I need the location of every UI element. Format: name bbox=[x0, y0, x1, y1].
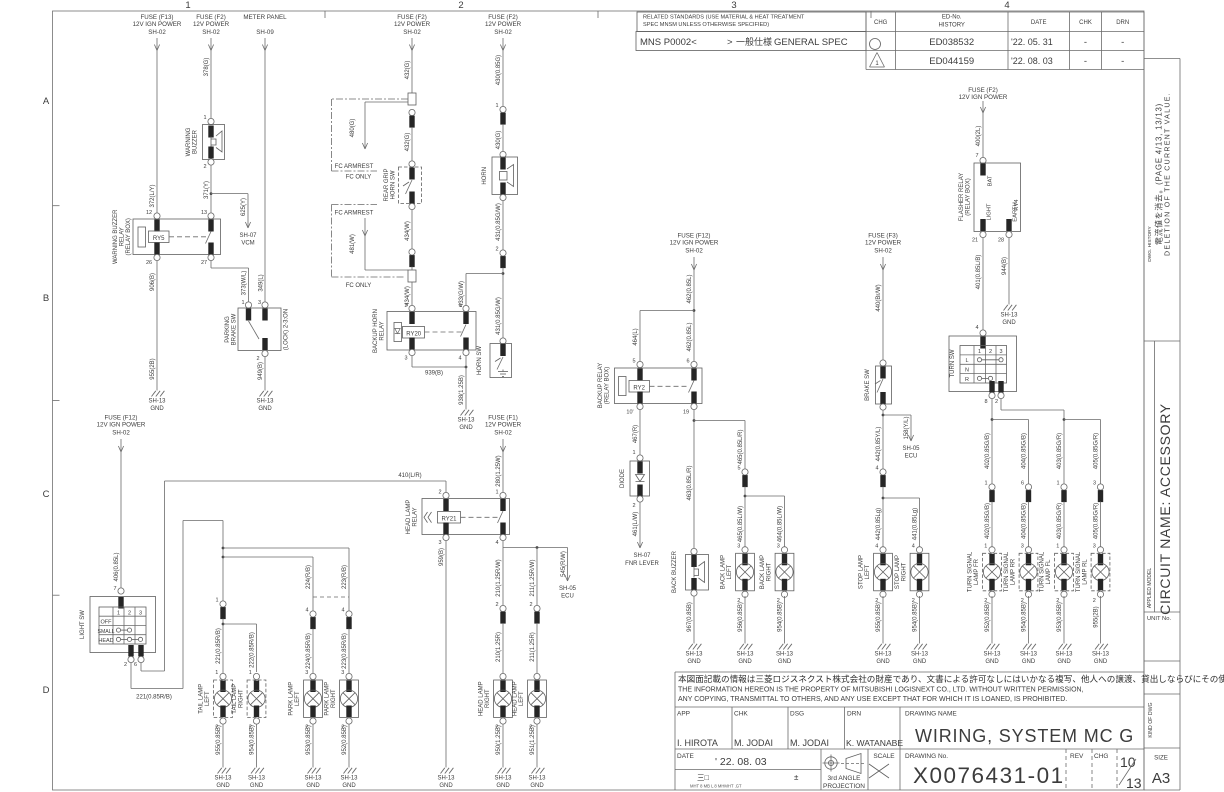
stop lamp left bbox=[880, 547, 886, 553]
wire 467(R) bbox=[633, 410, 640, 455]
wire 625(Y) to SH-07 VCM bbox=[211, 194, 257, 247]
relay RY5 warning buzzer relay bbox=[113, 209, 221, 266]
svg-text:403(0.85G/R): 403(0.85G/R) bbox=[1057, 503, 1063, 539]
svg-text:KIND OF DWG: KIND OF DWG bbox=[1148, 702, 1154, 737]
svg-text:211(1.25R): 211(1.25R) bbox=[530, 632, 536, 662]
svg-text:HORN SW: HORN SW bbox=[477, 346, 483, 375]
svg-text:28: 28 bbox=[998, 238, 1004, 244]
svg-text:FLASHER RELAY: FLASHER RELAY bbox=[959, 173, 965, 222]
svg-text:RIGHT: RIGHT bbox=[767, 562, 773, 581]
wire 371(Y) bbox=[204, 165, 211, 216]
svg-text:LEFT: LEFT bbox=[865, 564, 871, 579]
date cell bbox=[675, 753, 821, 770]
svg-text:4: 4 bbox=[1004, 0, 1009, 11]
svg-text:GND: GND bbox=[687, 659, 701, 665]
svg-text:REAR GRIP: REAR GRIP bbox=[384, 168, 390, 201]
ground SH-13 stop lamp left bbox=[878, 644, 882, 650]
connector on back lamp wire bbox=[737, 466, 748, 552]
svg-text:1: 1 bbox=[978, 349, 981, 355]
svg-text:HORN: HORN bbox=[482, 167, 488, 185]
svg-text:1: 1 bbox=[117, 610, 120, 616]
park lamp right bbox=[346, 673, 352, 679]
svg-text:442(0.85Lg): 442(0.85Lg) bbox=[876, 508, 882, 540]
wire 954(0.85B) to ground bbox=[250, 724, 257, 768]
tail and park lamp bus bbox=[183, 521, 349, 612]
svg-text:SH-13: SH-13 bbox=[1020, 652, 1038, 658]
svg-text:467(R): 467(R) bbox=[633, 425, 639, 443]
svg-text:SPEC MNSM UNLESS OTHERWISE SPE: SPEC MNSM UNLESS OTHERWISE SPECIFIED) bbox=[643, 22, 769, 28]
power feed FUSE (F2) 12V POWER SH-02 bbox=[193, 14, 230, 119]
svg-text:THE INFORMATION HEREON IS THE: THE INFORMATION HEREON IS THE PROPERTY O… bbox=[678, 687, 1084, 694]
svg-text:HISTORY: HISTORY bbox=[938, 23, 964, 29]
relay RY4 flasher relay bbox=[959, 153, 1021, 244]
svg-text:本図面記載の情報は三菱ロジスネクスト株式会社の財産であり、文: 本図面記載の情報は三菱ロジスネクスト株式会社の財産であり、文書による許可なしには… bbox=[678, 673, 1224, 684]
svg-text:8: 8 bbox=[984, 399, 987, 405]
svg-text:PARKING: PARKING bbox=[225, 316, 231, 343]
svg-text:402(0.85G/B): 402(0.85G/B) bbox=[985, 503, 991, 539]
ground SH-13 head lamp relay bbox=[441, 768, 445, 774]
svg-text:OFF: OFF bbox=[101, 620, 113, 626]
ground SH-13 turn RR bbox=[1023, 644, 1027, 650]
svg-text:1: 1 bbox=[495, 103, 498, 109]
svg-text:SH-02: SH-02 bbox=[148, 29, 166, 36]
svg-text:1: 1 bbox=[203, 115, 206, 121]
wire 955(2B) turn RL bbox=[1094, 596, 1101, 644]
svg-text:RIGHT: RIGHT bbox=[902, 562, 908, 581]
svg-text:BACKUP HORN: BACKUP HORN bbox=[373, 309, 379, 353]
relay RY20 backup horn relay bbox=[373, 303, 476, 362]
wire 955(0.85B) to ground bbox=[216, 724, 223, 768]
svg-text:-: - bbox=[1121, 37, 1124, 48]
svg-text:(RELAY BOX): (RELAY BOX) bbox=[966, 178, 972, 215]
connector on wire 432 bbox=[405, 109, 415, 161]
power feed FUSE (F13) 12V IGN POWER SH-02 bbox=[133, 14, 182, 216]
svg-text:HEAD LAMP: HEAD LAMP bbox=[513, 681, 519, 716]
svg-text:電流値を消去。(PAGE 4/13, 13/13): 電流値を消去。(PAGE 4/13, 13/13) bbox=[1154, 103, 1164, 245]
svg-text:211(1.25R/W): 211(1.25R/W) bbox=[530, 560, 536, 597]
svg-text:2: 2 bbox=[495, 602, 498, 608]
svg-text:12V IGN POWER: 12V IGN POWER bbox=[959, 94, 1008, 101]
svg-text:1: 1 bbox=[1056, 543, 1059, 549]
svg-text:1: 1 bbox=[632, 450, 635, 456]
junction backup relay coil branch bbox=[640, 309, 695, 365]
svg-text:7: 7 bbox=[975, 153, 978, 159]
svg-text:X0076431-01: X0076431-01 bbox=[913, 763, 1065, 788]
svg-text:1: 1 bbox=[984, 481, 987, 487]
svg-text:1: 1 bbox=[241, 300, 244, 306]
svg-text:FC ARMREST: FC ARMREST bbox=[335, 164, 374, 170]
svg-text:ED044159: ED044159 bbox=[929, 56, 974, 67]
svg-text:SH-13: SH-13 bbox=[340, 776, 358, 782]
svg-text:3: 3 bbox=[1093, 481, 1096, 487]
svg-text:4: 4 bbox=[341, 608, 344, 614]
svg-text:SIZE: SIZE bbox=[1154, 755, 1168, 762]
turn signal lamp RL bbox=[1097, 547, 1103, 553]
svg-text:2: 2 bbox=[203, 164, 206, 170]
svg-text:CHG: CHG bbox=[1094, 753, 1108, 760]
svg-text:954(0.85B): 954(0.85B) bbox=[250, 725, 256, 755]
svg-text:13: 13 bbox=[201, 210, 207, 216]
ground SH-13 tail lamp left bbox=[218, 768, 222, 774]
revision table related standards box bbox=[637, 12, 866, 32]
svg-text:TURN SIGNAL: TURN SIGNAL bbox=[1040, 551, 1046, 592]
notice box bbox=[675, 672, 1224, 790]
svg-text:2: 2 bbox=[458, 0, 463, 11]
svg-text:2: 2 bbox=[404, 303, 407, 309]
svg-text:FC ONLY: FC ONLY bbox=[346, 283, 372, 289]
svg-text:SH-13: SH-13 bbox=[457, 418, 475, 424]
svg-text:RELAY: RELAY bbox=[413, 507, 419, 526]
wire 434(W) upper bbox=[405, 210, 412, 249]
svg-text:SH-13: SH-13 bbox=[983, 652, 1001, 658]
svg-text:C: C bbox=[43, 489, 50, 500]
svg-text:LAMP FR: LAMP FR bbox=[974, 558, 980, 585]
svg-text:MHT 8 MB L 8 MHMHT .GT: MHT 8 MB L 8 MHMHT .GT bbox=[690, 784, 742, 789]
svg-text:BAT: BAT bbox=[988, 175, 994, 186]
svg-text:LIGHT SW: LIGHT SW bbox=[80, 610, 86, 639]
svg-text:464(L): 464(L) bbox=[633, 328, 639, 345]
svg-text:373(W/L): 373(W/L) bbox=[242, 271, 248, 296]
turn signal lamp RR bbox=[1025, 547, 1031, 553]
svg-text:LAMP RR: LAMP RR bbox=[1011, 558, 1017, 585]
svg-text:402(0.85G/B): 402(0.85G/B) bbox=[985, 433, 991, 469]
junction brake ecu branch bbox=[882, 410, 914, 469]
svg-text:FUSE (F2): FUSE (F2) bbox=[196, 14, 226, 21]
svg-text:SH-02: SH-02 bbox=[202, 29, 220, 36]
svg-text:GND: GND bbox=[258, 406, 272, 412]
svg-text:BACK LAMP: BACK LAMP bbox=[760, 555, 766, 589]
svg-text:954(0.85B): 954(0.85B) bbox=[913, 602, 919, 632]
svg-text:3rd ANGLE: 3rd ANGLE bbox=[828, 775, 862, 782]
wire 401(0.85L/B) bbox=[976, 238, 983, 330]
wire 939(B) bbox=[412, 356, 467, 377]
svg-text:METER PANEL: METER PANEL bbox=[243, 14, 287, 21]
wire 221(0.85R/B) from light sw pin 2 bbox=[131, 521, 183, 701]
svg-text:PROJECTION: PROJECTION bbox=[823, 783, 865, 790]
svg-text:432(G): 432(G) bbox=[405, 133, 411, 152]
svg-text:GND: GND bbox=[306, 783, 320, 789]
connector on stop lamp wire bbox=[875, 466, 886, 552]
svg-text:952(0.85B): 952(0.85B) bbox=[342, 725, 348, 755]
wire 956(0.85B) to ground bbox=[738, 596, 745, 644]
svg-text:GND: GND bbox=[1057, 659, 1071, 665]
svg-text:GND: GND bbox=[530, 783, 544, 789]
svg-text:TURN SIGNAL: TURN SIGNAL bbox=[1004, 551, 1010, 592]
svg-text:DATE: DATE bbox=[1031, 20, 1047, 26]
svg-text:APPLIED MODEL: APPLIED MODEL bbox=[1147, 568, 1153, 609]
svg-text:FC ONLY: FC ONLY bbox=[346, 175, 372, 181]
svg-text:'22. 08. 03: '22. 08. 03 bbox=[1011, 56, 1053, 66]
svg-text:三□: 三□ bbox=[697, 773, 709, 782]
svg-text:3: 3 bbox=[777, 543, 780, 549]
revision table MNS P0002 general spec row bbox=[636, 32, 866, 51]
svg-text:-: - bbox=[1084, 37, 1087, 48]
svg-text:SH-02: SH-02 bbox=[112, 430, 130, 437]
connector turn FR bbox=[984, 481, 995, 551]
park lamp left bbox=[310, 673, 316, 679]
svg-text:-: - bbox=[1121, 56, 1124, 67]
svg-text:L: L bbox=[965, 358, 968, 364]
svg-text:SH-13: SH-13 bbox=[776, 652, 794, 658]
power feed FUSE (F12) 12V IGN POWER SH-02 bbox=[97, 415, 146, 592]
svg-text:PARK LAMP: PARK LAMP bbox=[325, 682, 331, 716]
svg-text:12V POWER: 12V POWER bbox=[394, 21, 431, 28]
ground SH-13 head lamp left bbox=[532, 768, 536, 774]
revision history table grid bbox=[866, 12, 1144, 70]
svg-text:UNIT No.: UNIT No. bbox=[1147, 616, 1171, 622]
svg-text:SH-13: SH-13 bbox=[685, 652, 703, 658]
svg-text:TURN SIGNAL: TURN SIGNAL bbox=[1076, 551, 1082, 592]
svg-text:221(0.85R/B): 221(0.85R/B) bbox=[216, 628, 222, 664]
svg-text:12V IGN POWER: 12V IGN POWER bbox=[670, 240, 719, 247]
ground SH-13 tail lamp right bbox=[251, 768, 255, 774]
svg-text:DATE: DATE bbox=[677, 753, 695, 760]
svg-text:224(R/B): 224(R/B) bbox=[306, 565, 312, 589]
wire 950(1.25B) to ground bbox=[496, 724, 503, 768]
ground SH-13 for parking brake sw bbox=[260, 391, 264, 397]
ground SH-13 park lamp right bbox=[344, 768, 348, 774]
svg-text:222(0.85R/B): 222(0.85R/B) bbox=[250, 632, 256, 668]
wire 959(B) to ground bbox=[439, 541, 446, 768]
svg-text:3: 3 bbox=[258, 300, 261, 306]
svg-text:3: 3 bbox=[438, 540, 441, 546]
stop lamp right bbox=[916, 547, 922, 553]
ground SH-13 flasher relay bbox=[1004, 305, 1008, 311]
svg-text:3: 3 bbox=[341, 670, 344, 676]
svg-text:SH-02: SH-02 bbox=[685, 248, 703, 255]
svg-text:434(W): 434(W) bbox=[405, 221, 411, 241]
svg-text:12V IGN POWER: 12V IGN POWER bbox=[133, 21, 182, 28]
svg-text:HEAD LAMP: HEAD LAMP bbox=[406, 500, 412, 535]
svg-text:950(1.25B): 950(1.25B) bbox=[496, 725, 502, 755]
svg-text:GND: GND bbox=[150, 406, 164, 412]
parking brake switch bbox=[225, 300, 290, 362]
svg-text:GND: GND bbox=[496, 783, 510, 789]
svg-text:280(1.25W): 280(1.25W) bbox=[496, 455, 502, 486]
connector on head lamp right wire bbox=[495, 602, 506, 676]
svg-text:SH-13: SH-13 bbox=[248, 776, 266, 782]
svg-text:RELATED STANDARDS (USE MATERIA: RELATED STANDARDS (USE MATERIAL & HEAT T… bbox=[643, 15, 805, 21]
svg-text:4: 4 bbox=[875, 466, 878, 472]
svg-text:GND: GND bbox=[876, 659, 890, 665]
svg-text:406(0.85L): 406(0.85L) bbox=[114, 552, 120, 581]
svg-text:I. HIROTA: I. HIROTA bbox=[677, 738, 718, 748]
svg-text:SH-13: SH-13 bbox=[437, 776, 455, 782]
wire 431(0.85G/W) upper bbox=[496, 201, 503, 250]
svg-text:VCM: VCM bbox=[241, 241, 254, 247]
back lamp right bbox=[781, 547, 787, 553]
svg-text:TAIL LAMP: TAIL LAMP bbox=[199, 684, 205, 714]
svg-text:6: 6 bbox=[1021, 481, 1024, 487]
svg-text:FUSE (F2): FUSE (F2) bbox=[488, 14, 518, 21]
svg-text:LEFT: LEFT bbox=[205, 691, 211, 706]
svg-text:BUZZER: BUZZER bbox=[193, 129, 199, 154]
svg-text:M. JODAI: M. JODAI bbox=[790, 738, 829, 748]
svg-text:953(0.85B): 953(0.85B) bbox=[306, 725, 312, 755]
svg-text:21: 21 bbox=[972, 238, 978, 244]
svg-text:D: D bbox=[43, 685, 50, 696]
svg-text:442(0.85Y/L): 442(0.85Y/L) bbox=[876, 427, 882, 462]
warning buzzer component bbox=[186, 115, 225, 170]
power feed FUSE (F2) 12V IGN POWER flasher bbox=[959, 87, 1008, 158]
svg-text:RY5: RY5 bbox=[153, 236, 165, 242]
wire 955(0.85B) to ground stop bbox=[876, 596, 883, 644]
svg-text:RIGHT: RIGHT bbox=[239, 689, 245, 708]
svg-text:WIRING, SYSTEM MC G: WIRING, SYSTEM MC G bbox=[915, 726, 1134, 746]
wire 545(R/W) to SH-05 ECU bbox=[559, 548, 577, 600]
relay RY21 head lamp relay bbox=[406, 490, 510, 547]
wire 480(G) to FC armrest bbox=[350, 102, 408, 149]
wire 952(0.85B) to ground bbox=[342, 724, 349, 768]
connector on head lamp left wire bbox=[529, 602, 540, 676]
svg-text:349(L): 349(L) bbox=[259, 274, 265, 291]
connector on wire 431 bbox=[495, 247, 506, 339]
head lamp feed split bbox=[503, 541, 568, 605]
svg-text:LEFT: LEFT bbox=[727, 564, 733, 579]
svg-text:954(0.85B): 954(0.85B) bbox=[778, 602, 784, 632]
svg-text:1: 1 bbox=[495, 490, 498, 496]
svg-text:DRN: DRN bbox=[1116, 20, 1129, 26]
svg-text:2: 2 bbox=[495, 247, 498, 253]
svg-text:SMALL: SMALL bbox=[97, 629, 114, 635]
brake switch bbox=[865, 360, 892, 410]
svg-text:SH-02: SH-02 bbox=[403, 29, 421, 36]
svg-text:221(0.85R/B): 221(0.85R/B) bbox=[136, 695, 172, 701]
svg-text:4: 4 bbox=[458, 356, 461, 362]
bus 410(L/R) to head lamp relay bbox=[165, 473, 447, 496]
svg-text:DSG: DSG bbox=[790, 711, 804, 718]
connector on wire 434 bbox=[409, 249, 415, 270]
svg-text:952(0.85B): 952(0.85B) bbox=[985, 602, 991, 632]
svg-text:DELETION OF THE CURRENT VALUE.: DELETION OF THE CURRENT VALUE. bbox=[1165, 92, 1172, 256]
approver names bbox=[677, 738, 903, 748]
svg-text:1: 1 bbox=[458, 303, 461, 309]
svg-text:2: 2 bbox=[995, 399, 998, 405]
svg-text:LAMP FL: LAMP FL bbox=[1046, 559, 1052, 585]
wire 944(B) to ground bbox=[1002, 238, 1009, 305]
svg-text:M. JODAI: M. JODAI bbox=[734, 738, 773, 748]
junction back lamp branch bbox=[744, 495, 785, 552]
svg-text:12V IGN POWER: 12V IGN POWER bbox=[97, 422, 146, 429]
revision row ED038532 bbox=[870, 37, 1125, 50]
svg-text:BACK LAMP: BACK LAMP bbox=[721, 555, 727, 589]
svg-text:LIGHT: LIGHT bbox=[987, 203, 993, 221]
svg-text:959(B): 959(B) bbox=[439, 548, 445, 566]
ground SH-13 back buzzer bbox=[689, 644, 693, 650]
ground SH-13 park lamp left bbox=[308, 768, 312, 774]
junction stop lamp branch bbox=[882, 497, 920, 552]
svg-text:GND: GND bbox=[1002, 320, 1016, 326]
wire 954(0.85B) to ground backlamp bbox=[778, 596, 785, 644]
svg-text:-: - bbox=[1084, 56, 1087, 67]
ground SH-13 turn FL bbox=[1059, 644, 1063, 650]
splice box on wire 434 bbox=[408, 270, 416, 282]
svg-text:DWG. HISTORY: DWG. HISTORY bbox=[1147, 225, 1153, 261]
tail lamp right bbox=[253, 673, 259, 679]
ground SH-13 for warning buzzer relay bbox=[152, 391, 156, 397]
horn switch bbox=[477, 338, 512, 378]
svg-text:465(0.85L/R): 465(0.85L/R) bbox=[738, 429, 744, 464]
svg-text:955(0.85B): 955(0.85B) bbox=[876, 602, 882, 632]
wire 481(W) from FC armrest bbox=[350, 218, 408, 270]
svg-text:2: 2 bbox=[128, 610, 131, 616]
svg-text:944(B): 944(B) bbox=[1002, 257, 1008, 275]
wire 949(B) to ground bbox=[258, 357, 265, 391]
wire 953(0.85B) turn FL bbox=[1057, 596, 1064, 644]
svg-text:441(0.85Lg): 441(0.85Lg) bbox=[913, 508, 919, 540]
svg-text:938(1.25B): 938(1.25B) bbox=[459, 375, 465, 405]
svg-text:DRAWING NAME: DRAWING NAME bbox=[905, 711, 957, 718]
svg-text:SH-13: SH-13 bbox=[911, 652, 929, 658]
wire 906(B) / 955(2B) to ground bbox=[150, 261, 157, 391]
wire 373(W/L) from relay pin 27 bbox=[211, 261, 249, 305]
svg-text:FNR LEVER: FNR LEVER bbox=[625, 561, 659, 567]
svg-text:461(L/W): 461(L/W) bbox=[633, 512, 639, 537]
svg-text:3: 3 bbox=[305, 670, 308, 676]
svg-text:DRAWING No.: DRAWING No. bbox=[905, 753, 948, 760]
svg-text:BRAKE SW: BRAKE SW bbox=[232, 313, 238, 345]
turn signal lamp FL bbox=[1061, 547, 1067, 553]
svg-text:RELAY: RELAY bbox=[120, 227, 126, 246]
svg-text:401(0.85L/B): 401(0.85L/B) bbox=[976, 255, 982, 290]
svg-text:405(0.85G/R): 405(0.85G/R) bbox=[1094, 433, 1100, 469]
svg-text:463(0.85L/R): 463(0.85L/R) bbox=[687, 465, 693, 500]
head lamp right bbox=[500, 673, 506, 679]
svg-text:SH-13: SH-13 bbox=[874, 652, 892, 658]
svg-text:FUSE (F3): FUSE (F3) bbox=[868, 233, 898, 240]
svg-text:SH-13: SH-13 bbox=[304, 776, 322, 782]
svg-text:RIGHT: RIGHT bbox=[331, 689, 337, 708]
wire 938(1.25B) to ground bbox=[459, 356, 466, 410]
head lamp left bbox=[534, 673, 540, 679]
svg-text:B: B bbox=[43, 293, 49, 304]
svg-text:2: 2 bbox=[1093, 598, 1096, 604]
svg-text:10: 10 bbox=[1120, 754, 1136, 770]
svg-text:440(Br/W): 440(Br/W) bbox=[876, 284, 882, 311]
ground SH-13 back lamp left bbox=[740, 644, 744, 650]
svg-text:R: R bbox=[965, 377, 969, 383]
rear grip horn switch bbox=[384, 161, 422, 210]
svg-text:4: 4 bbox=[975, 325, 978, 331]
svg-text:±: ± bbox=[794, 773, 799, 782]
back buzzer component bbox=[672, 548, 709, 596]
power feed FUSE (F12) 12V IGN POWER SH-02 backup bbox=[670, 233, 719, 366]
svg-text:465(0.85L/W): 465(0.85L/W) bbox=[738, 506, 744, 542]
svg-text:481(W): 481(W) bbox=[350, 234, 356, 254]
svg-text:RIGHT: RIGHT bbox=[485, 689, 491, 708]
svg-text:RY4: RY4 bbox=[1014, 199, 1020, 211]
svg-text:955(2B): 955(2B) bbox=[150, 358, 156, 379]
wire 952(0.85B) turn bbox=[985, 596, 992, 644]
svg-text:WARNING BUZZER: WARNING BUZZER bbox=[113, 209, 119, 264]
svg-text:5: 5 bbox=[632, 359, 635, 365]
svg-text:3: 3 bbox=[999, 349, 1002, 355]
svg-text:462(0.85L): 462(0.85L) bbox=[687, 322, 693, 351]
svg-text:939(B): 939(B) bbox=[425, 371, 443, 377]
svg-text:210(1.25R/W): 210(1.25R/W) bbox=[496, 559, 502, 596]
svg-text:GND: GND bbox=[778, 659, 792, 665]
svg-text:GND: GND bbox=[439, 783, 453, 789]
svg-text:DRN: DRN bbox=[847, 711, 861, 718]
svg-text:FUSE (F12): FUSE (F12) bbox=[104, 415, 137, 422]
svg-text:4: 4 bbox=[495, 540, 498, 546]
drawing number cell bbox=[905, 753, 1065, 788]
svg-text:2: 2 bbox=[438, 490, 441, 496]
svg-text:6: 6 bbox=[134, 662, 137, 668]
svg-text:K. WATANABE: K. WATANABE bbox=[846, 738, 903, 748]
svg-text:SH-13: SH-13 bbox=[736, 652, 754, 658]
svg-text:1: 1 bbox=[984, 543, 987, 549]
